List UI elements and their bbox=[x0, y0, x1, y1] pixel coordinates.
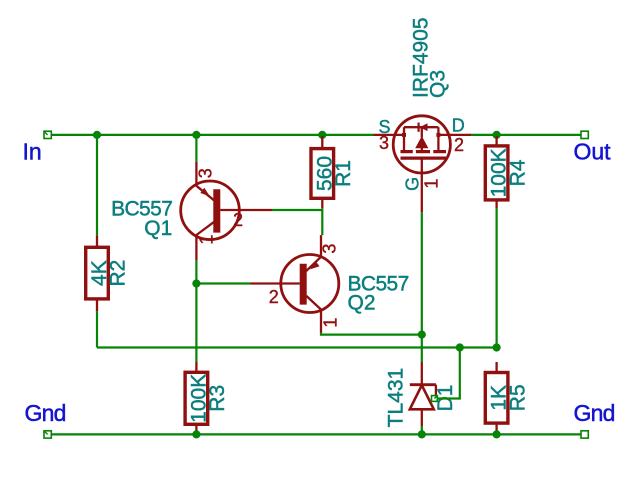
junction: top rail / R1 branch bbox=[318, 131, 326, 139]
body: channel segment middle bbox=[416, 150, 430, 153]
transistor Q1 BC557 (PNP) bbox=[111, 162, 272, 260]
pin 3: Q2 emitter lead bbox=[320, 235, 322, 256]
svg-text:Out: Out bbox=[574, 138, 612, 164]
node Gnd left: open-square terminal bbox=[44, 431, 51, 438]
wire: top rail down to Q1 emitter pin bbox=[195, 135, 197, 162]
pin 2: Q3 drain lead bbox=[438, 134, 471, 136]
body: source vertical stub bbox=[403, 127, 405, 151]
body: Q3 circle bbox=[393, 116, 450, 173]
svg-text:3: 3 bbox=[320, 244, 340, 254]
node Gnd right: open-square terminal bbox=[581, 431, 588, 438]
resistor R5 bbox=[485, 362, 529, 431]
svg-text:R4: R4 bbox=[506, 159, 529, 186]
pin: R4 top lead bbox=[495, 136, 497, 146]
wire: R3 bottom to ground rail bbox=[195, 431, 197, 434]
pin 2: Q1 base lead bbox=[220, 209, 272, 211]
body: Q2 emitter arrow bbox=[310, 261, 320, 269]
wire: Q2 base wire bbox=[196, 282, 250, 284]
junction: Q1 collector / Q2 base bbox=[192, 279, 200, 287]
junction: ground rail / D1 anode bbox=[418, 430, 426, 438]
svg-text:3: 3 bbox=[196, 168, 216, 178]
body: channel segment right bbox=[433, 150, 446, 153]
junction: feedback node R4/R5 bbox=[493, 343, 501, 351]
svg-text:Q3: Q3 bbox=[427, 70, 450, 98]
body: substrate arrow (points up) bbox=[415, 136, 428, 148]
resistor R4 bbox=[485, 136, 529, 208]
svg-text:1: 1 bbox=[422, 179, 442, 189]
mosfet Q3 IRF4905 (P-channel) bbox=[374, 17, 472, 212]
pin: R3 top lead bbox=[195, 362, 197, 372]
body: R2 box bbox=[86, 247, 109, 299]
svg-text:In: In bbox=[23, 138, 42, 164]
svg-text:Gnd: Gnd bbox=[574, 400, 615, 426]
svg-text:3: 3 bbox=[379, 133, 389, 153]
wire: D1 anode to ground rail bbox=[421, 426, 423, 434]
pin: D1 cathode lead bbox=[421, 362, 423, 385]
transistor Q2 BC557 (PNP, mirrored) bbox=[251, 235, 409, 332]
body: R3 box bbox=[185, 372, 208, 424]
wire: R4 bottom down to feedback node bbox=[496, 208, 498, 348]
junction: Q2 collector / gate line bbox=[418, 331, 426, 339]
pin: R4 bottom lead bbox=[495, 200, 497, 208]
svg-text:1: 1 bbox=[197, 235, 217, 245]
node Out: open-square terminal bbox=[581, 131, 588, 138]
wire: R1 bottom down to Q2 emitter pin bbox=[321, 208, 323, 235]
pin: R5 top lead bbox=[495, 362, 497, 373]
body: Q1 base bar bbox=[213, 189, 220, 232]
svg-text:R5: R5 bbox=[506, 384, 529, 411]
junction: top rail / R2 branch bbox=[93, 131, 101, 139]
body: D1 cathode bar bbox=[410, 383, 436, 386]
wire: D1 ref up to feedback rail bbox=[437, 348, 460, 399]
resistor R3 bbox=[185, 362, 229, 431]
body: top substrate link bbox=[404, 126, 438, 128]
svg-text:G: G bbox=[403, 177, 423, 191]
svg-text:2: 2 bbox=[454, 135, 464, 155]
node: drain pin end square bbox=[436, 133, 440, 137]
pin: D1 anode lead bbox=[421, 409, 423, 426]
svg-text:Q2: Q2 bbox=[348, 291, 376, 314]
pin: D1 reference bend bbox=[435, 385, 437, 396]
wire: In rail down to R2 top bbox=[96, 135, 98, 236]
wire: Q1 base to R1 bottom node bbox=[272, 209, 322, 211]
pin: R2 top lead bbox=[96, 236, 98, 248]
svg-text:R3: R3 bbox=[206, 385, 229, 412]
wire: R2 bottom down to feedback rail bbox=[96, 311, 98, 347]
pin 1: Q1 collector lead bbox=[195, 235, 197, 261]
wire: Q1 collector down to R3 top bbox=[195, 260, 197, 362]
body: R1 box bbox=[311, 149, 334, 199]
node: source pin end square bbox=[402, 133, 406, 137]
body: Q1 emitter arrow bbox=[200, 188, 210, 196]
body: drain vertical stub bbox=[437, 127, 439, 151]
body: channel segment left bbox=[401, 150, 413, 153]
svg-text:1: 1 bbox=[320, 318, 340, 328]
pin 3: Q3 source lead bbox=[374, 134, 405, 136]
svg-text:D: D bbox=[452, 116, 465, 136]
junction: top rail / Q1 branch bbox=[192, 131, 200, 139]
pin 1: Q2 collector lead bbox=[320, 309, 322, 332]
body: body-diode arrow bbox=[420, 123, 428, 131]
svg-text:TL431: TL431 bbox=[385, 368, 408, 428]
body: substrate stub lower bbox=[421, 148, 423, 152]
body: D1 anode triangle bbox=[410, 385, 434, 409]
pin: R1 bottom lead bbox=[321, 198, 323, 208]
junction: ground rail / R3 bbox=[192, 430, 200, 438]
svg-text:2: 2 bbox=[233, 210, 243, 230]
pin 1: Q3 gate lead bbox=[421, 158, 423, 212]
body: Q2 base bar bbox=[300, 264, 307, 305]
pin: R5 bottom lead bbox=[495, 423, 497, 431]
body: Q1 collector diagonal bbox=[196, 222, 214, 235]
body: R4 box bbox=[485, 146, 508, 200]
node: D1 ref wire-end square bbox=[432, 396, 438, 402]
wire: top rail from In terminal to Q3 source pin bbox=[51, 134, 373, 136]
junction: top rail / R4 branch bbox=[493, 131, 501, 139]
body: Q1 emitter diagonal bbox=[196, 186, 214, 201]
body: Q2 circle bbox=[281, 255, 339, 313]
wire: top rail from Q3 drain pin to Out terminal bbox=[470, 134, 581, 136]
pin 3: Q1 emitter lead bbox=[195, 162, 197, 187]
body: gate plate bbox=[401, 157, 447, 160]
svg-text:Gnd: Gnd bbox=[25, 400, 66, 426]
wire: gate line down to D1 cathode bbox=[421, 212, 423, 362]
pin: R1 top lead bbox=[321, 136, 323, 149]
pin 2: Q2 base lead bbox=[251, 282, 300, 284]
node In: open-square terminal bbox=[44, 131, 51, 138]
junction: feedback rail / D1 ref tap bbox=[456, 343, 464, 351]
svg-text:R1: R1 bbox=[332, 160, 355, 187]
body: R5 box bbox=[485, 373, 508, 424]
wire: ground rail bbox=[51, 433, 581, 435]
body: Q2 emitter diagonal bbox=[306, 257, 321, 271]
wire: R5 bottom to ground rail bbox=[496, 431, 498, 435]
svg-text:Q1: Q1 bbox=[144, 217, 172, 240]
junction: ground rail / R5 bbox=[493, 430, 501, 438]
wire: feedback rail from R2 to R4/R5 node bbox=[97, 346, 497, 348]
body: body-diode cathode tick bbox=[418, 123, 420, 132]
wire: Q2 collector to gate node bbox=[321, 333, 422, 335]
body: Q2 collector diagonal bbox=[306, 296, 321, 310]
resistor R1 bbox=[311, 136, 355, 208]
svg-text:R2: R2 bbox=[107, 260, 130, 287]
body: substrate stub upper bbox=[421, 127, 423, 137]
pin: R2 bottom lead bbox=[96, 299, 98, 311]
diode D1 TL431 bbox=[385, 362, 458, 427]
pin: R3 bottom lead bbox=[195, 424, 197, 431]
svg-text:2: 2 bbox=[269, 287, 279, 307]
resistor R2 bbox=[86, 236, 130, 312]
body: Q1 circle bbox=[181, 181, 240, 240]
